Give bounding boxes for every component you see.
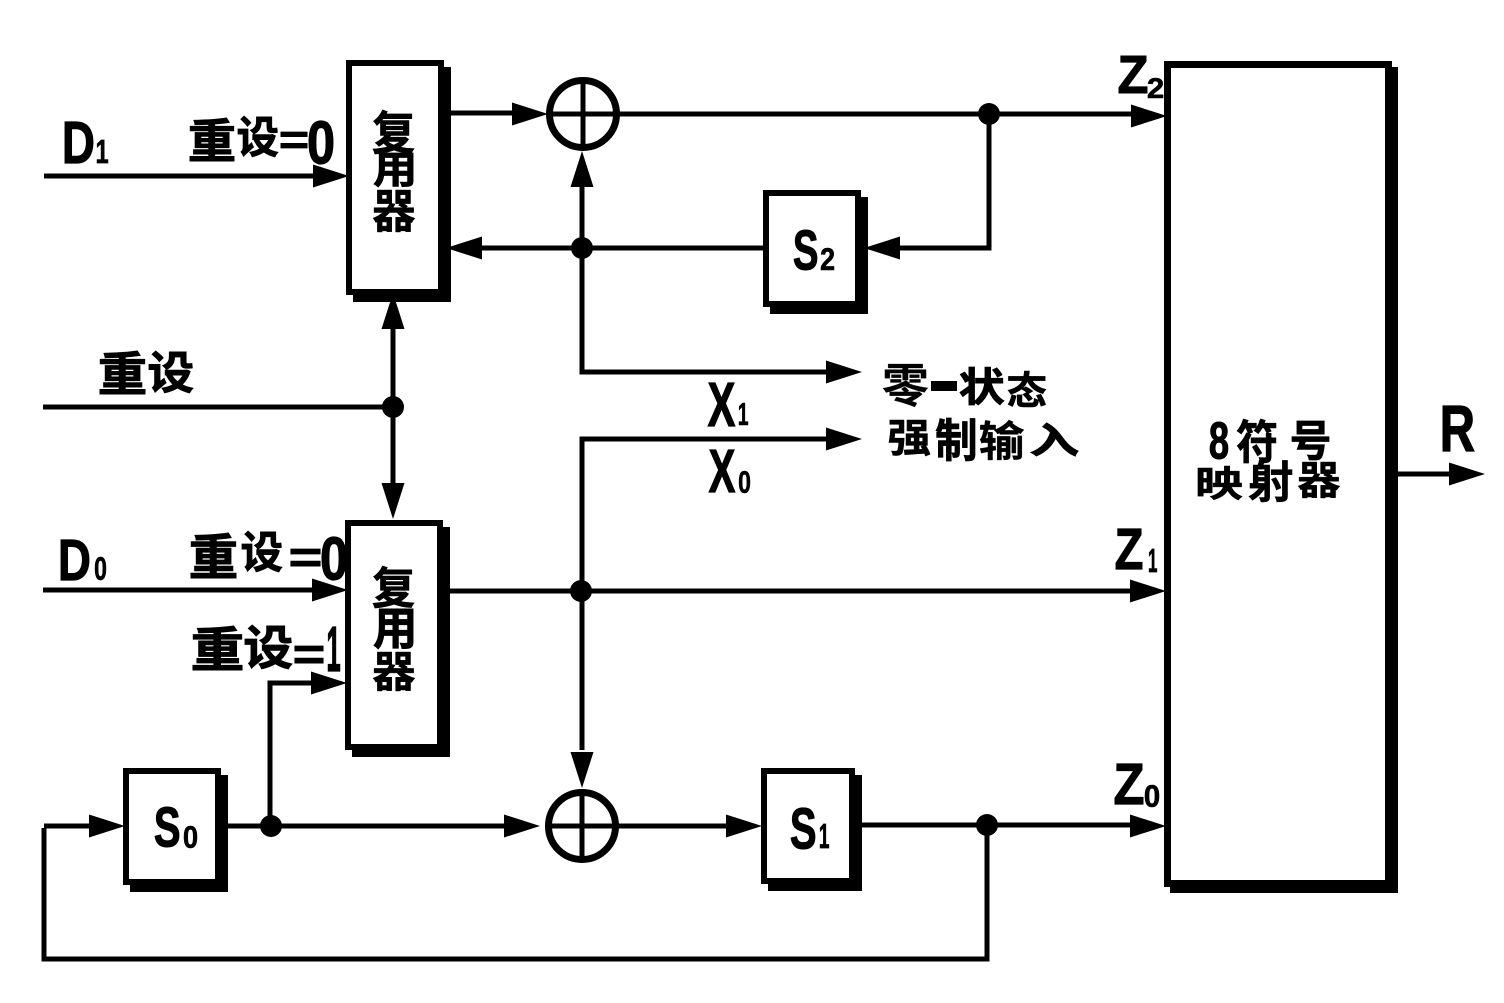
arrowhead Z1 into mapper [1130,580,1166,603]
wire feedback into S0 [44,824,92,829]
label D1 [65,122,108,163]
arrowhead R output [1449,463,1485,486]
node junction S0 output and reset=1 [260,815,282,837]
node junction on Z2 net [978,103,1000,125]
wire MUX2 output Z1 net [443,589,1139,594]
arrowhead into S2 right side [864,237,900,260]
label reset=1 [193,625,340,671]
wire D1 input line [44,174,318,179]
label reset=0 lower [191,531,346,580]
arrowhead reset=1 into MUX2 [311,672,347,695]
wire X0 branch [582,439,830,750]
label X0 [709,450,750,493]
node junction Z1 vertical [570,580,592,602]
arrowhead X1 force input [826,361,862,384]
wire R output [1392,472,1452,477]
arrowhead into XOR1 left [512,103,548,126]
multiplexer MUX1 [349,63,451,302]
arrowhead reset into MUX2 top [382,483,405,519]
multiplexer MUX2 [348,523,450,757]
arrowhead X0 force input [826,428,862,451]
label force input [889,418,1078,461]
label Z2 [1119,56,1163,98]
wire XOR1 to mapper Z2 net [617,112,1140,117]
delay element S0 [126,771,228,892]
wire reset line [43,405,393,410]
wire vertical up into XOR1 [580,184,585,248]
label zero-state [883,364,1046,407]
wire MUX1 output to XOR1 [444,111,515,116]
wire S0 output to XOR2 [221,824,507,829]
label reset [100,351,193,394]
node junction reset [382,396,404,418]
wire S2 output to MUX1 [477,246,763,251]
arrowhead reset into MUX1 bottom [382,293,405,329]
wire X1 branch [582,248,830,372]
wire reset up to MUX1 [391,326,396,407]
arrowhead D1 into MUX1 [313,165,349,188]
delay element S2 [766,193,868,314]
node junction Z0 feedback [976,814,998,836]
label Z1 [1116,529,1157,572]
label Z0 [1115,764,1159,807]
label X1 [708,383,748,426]
delay element S1 [764,771,862,891]
wire Z2 junction down to S2 input [892,114,989,248]
arrowhead Z0 into mapper [1130,815,1166,838]
label reset=0 upper [190,116,333,164]
arrowhead D0 into MUX2 [312,579,348,602]
wire XOR2 output to S1 [617,824,727,829]
wire reset down to MUX2 [391,407,396,486]
label R [1443,406,1474,451]
arrowhead S0 output into XOR2 [504,815,540,838]
arrowhead into S0 [89,815,125,838]
arrowhead Z2 into mapper [1131,105,1167,128]
wire D0 input line [43,588,317,593]
arrowhead down into XOR2 top [571,752,594,788]
wire feedback loop bottom [44,825,987,959]
arrowhead into S1 [726,815,762,838]
wire reset=1 into MUX2 [270,683,315,826]
arrowhead up into XOR1 bottom [571,151,594,187]
xor gate XOR2 [549,793,616,860]
arrowhead S2 output into MUX1 right side [446,237,482,260]
wire S1 output Z0 net [855,823,1139,828]
label D0 [61,540,106,580]
node junction S2 line and XOR1 vertical [571,237,593,259]
8-symbol mapper block [1168,65,1399,894]
xor gate XOR1 [550,81,617,148]
